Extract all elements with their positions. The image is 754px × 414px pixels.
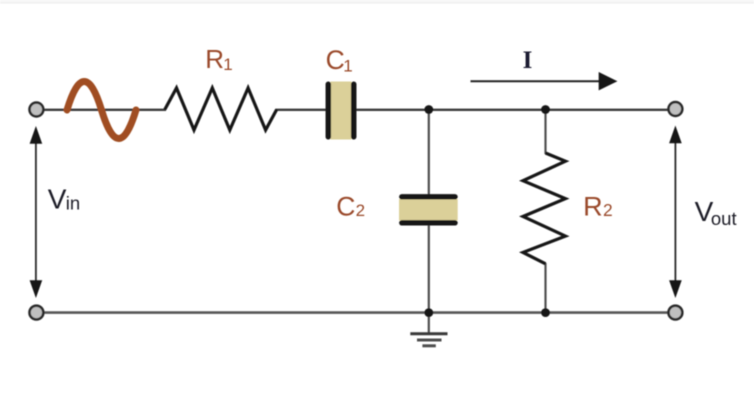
ground symbol bar 3 xyxy=(422,344,435,347)
terminal: input bottom xyxy=(30,306,44,320)
wire: C2 branch lower segment (C2 bottom plate to bottom rail) xyxy=(428,224,430,313)
svg-text:I: I xyxy=(523,47,533,74)
resistor R2 xyxy=(523,153,565,264)
capacitor C2 bottom plate xyxy=(402,220,455,225)
Vout measurement arrow line xyxy=(674,134,676,291)
svg-text:2: 2 xyxy=(356,201,365,220)
capacitor C1 dielectric fill xyxy=(331,82,352,140)
terminal: output top xyxy=(669,102,683,116)
junction node B (top, R2 branch) xyxy=(541,105,550,114)
Vin measurement arrow line xyxy=(35,134,37,291)
Vin arrowhead down xyxy=(30,280,43,298)
wire: bottom rail from input terminal to output terminal xyxy=(44,311,668,314)
svg-text:V: V xyxy=(48,183,67,214)
svg-text:1: 1 xyxy=(343,57,352,76)
svg-text:R: R xyxy=(205,44,224,74)
svg-text:in: in xyxy=(66,192,80,213)
Vin arrowhead up xyxy=(30,126,43,144)
current arrow I xyxy=(471,80,601,82)
capacitor C1 left plate xyxy=(326,84,332,137)
wire: top rail, C1 to output terminal xyxy=(355,109,668,111)
junction node D (bottom, R2) xyxy=(541,308,550,317)
capacitor C1 right plate xyxy=(351,84,357,137)
junction node A (top, C2 branch) xyxy=(424,105,433,114)
top border strip (edge of cropped UI) xyxy=(0,0,754,3)
ground symbol bar 2 xyxy=(417,339,442,342)
wire: ground stub xyxy=(428,313,430,333)
wire: R2 branch lower segment (R2 to bottom rail) xyxy=(544,263,546,313)
svg-text:2: 2 xyxy=(603,200,613,220)
capacitor C2 top plate xyxy=(402,194,455,199)
capacitor C2 dielectric fill xyxy=(399,199,458,221)
Vout arrowhead up xyxy=(669,126,682,144)
svg-text:out: out xyxy=(711,208,737,229)
wire: R2 branch upper segment (node B down to R2) xyxy=(544,110,546,155)
svg-text:1: 1 xyxy=(223,55,232,74)
AC source sine wave xyxy=(67,82,136,139)
svg-text:C: C xyxy=(326,45,345,75)
terminal: output bottom xyxy=(669,306,683,320)
wire: top rail, R1 to C1 xyxy=(276,109,328,111)
terminal: input top xyxy=(30,103,44,117)
ground symbol bar 1 xyxy=(410,332,447,335)
svg-text:R: R xyxy=(583,192,603,222)
junction node C (bottom, ground/C2) xyxy=(424,308,433,317)
svg-text:C: C xyxy=(336,191,355,221)
wire: C2 branch upper segment (node A down to C2 top plate) xyxy=(428,110,430,197)
wire: top rail, input terminal to R1 xyxy=(44,109,166,111)
resistor R1 xyxy=(165,88,277,130)
Vout arrowhead down xyxy=(669,280,682,298)
